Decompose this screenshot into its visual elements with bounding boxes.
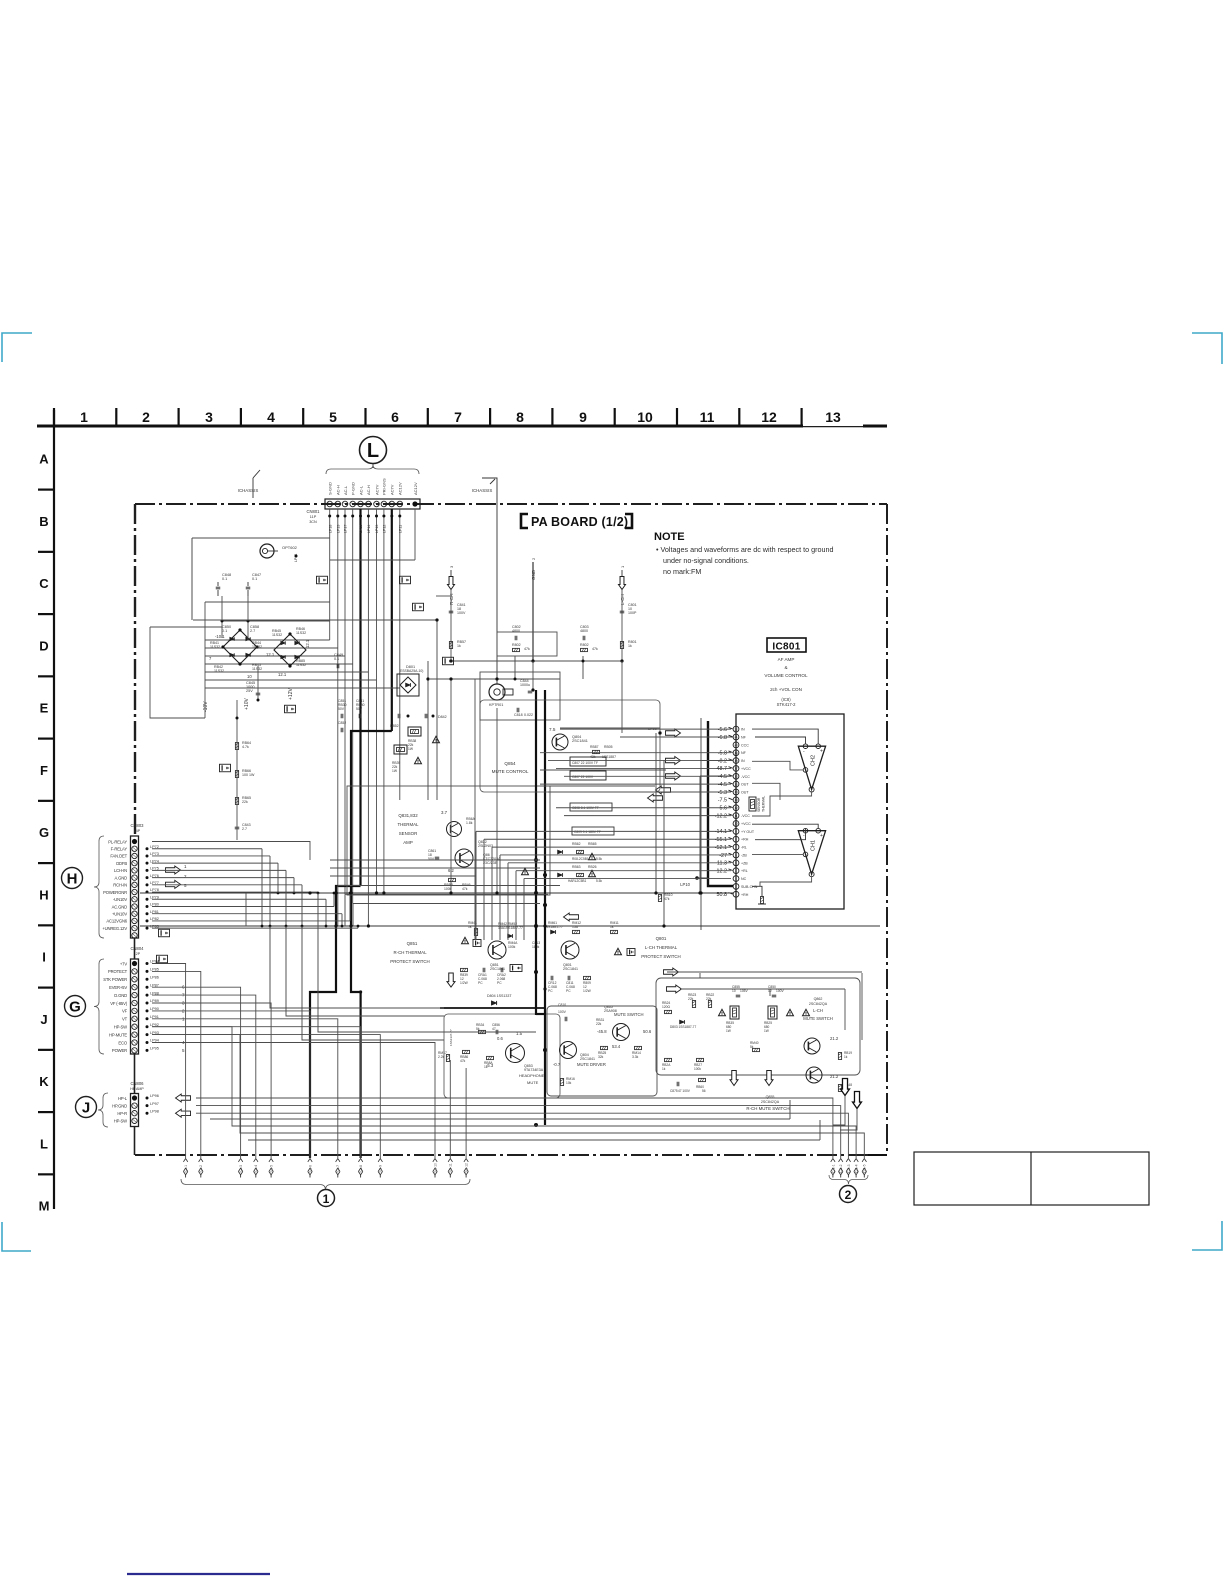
svg-text:12.1: 12.1 xyxy=(305,639,310,648)
svg-text:PL-RELAY: PL-RELAY xyxy=(108,839,127,844)
svg-text:ICHASSIS: ICHASSIS xyxy=(238,488,259,493)
svg-text:2.2k: 2.2k xyxy=(438,1055,445,1059)
brace for G group xyxy=(94,959,104,1054)
svg-text:CH1: CH1 xyxy=(811,840,817,851)
svg-text:L-CH: L-CH xyxy=(620,594,625,605)
svg-text:1k: 1k xyxy=(484,1065,488,1069)
svg-text:PRI-GNS: PRI-GNS xyxy=(382,478,387,495)
svg-text:20: 20 xyxy=(734,743,738,747)
svg-text:CN806: CN806 xyxy=(130,1081,144,1086)
svg-text:PROTECT: PROTECT xyxy=(108,969,128,974)
svg-text:0.1: 0.1 xyxy=(222,629,227,633)
svg-text:50V: 50V xyxy=(356,707,363,711)
grid ruler left line xyxy=(53,410,55,1209)
revision table xyxy=(914,1152,1149,1205)
svg-text:0.1: 0.1 xyxy=(334,657,339,661)
svg-text:100k: 100k xyxy=(444,887,452,891)
connector CN803 pins xyxy=(132,839,137,844)
bold down arrow 2 xyxy=(853,1092,862,1109)
svg-text:11S32: 11S32 xyxy=(210,645,220,649)
resistor RB65 xyxy=(235,798,238,805)
svg-text:RCH-IN: RCH-IN xyxy=(113,883,127,888)
svg-text:22k: 22k xyxy=(706,997,712,1001)
svg-text:47k: 47k xyxy=(524,647,530,651)
svg-text:RB65: RB65 xyxy=(588,842,597,846)
diode RM61 row xyxy=(551,930,556,934)
svg-text:-10.1: -10.1 xyxy=(215,634,225,639)
bold bus route B xyxy=(351,731,392,1158)
svg-text:LP11: LP11 xyxy=(398,525,402,533)
board border top dash-dot xyxy=(135,503,887,505)
svg-text:0.1: 0.1 xyxy=(252,577,257,581)
node 1 (circled) xyxy=(318,1190,335,1207)
boxed cap C808 xyxy=(570,803,612,811)
svg-text:HP-SW: HP-SW xyxy=(114,1119,127,1124)
svg-text:C: C xyxy=(39,576,49,591)
transistor Q801 xyxy=(561,941,579,959)
svg-text:AC.GND: AC.GND xyxy=(112,904,128,909)
svg-text:5.6: 5.6 xyxy=(720,806,728,812)
svg-text:+12V: +12V xyxy=(288,688,294,700)
svg-text:+10V: +10V xyxy=(244,698,250,710)
left drops extended to mute inputs xyxy=(270,926,444,1008)
svg-text:LP98: LP98 xyxy=(150,1109,159,1113)
svg-text:2.7: 2.7 xyxy=(250,629,255,633)
CN801 drop junction dots xyxy=(328,515,331,518)
svg-text:AMP: AMP xyxy=(403,840,413,845)
board border left dash-dot xyxy=(134,504,136,838)
svg-text:L-CH: L-CH xyxy=(813,1008,823,1013)
svg-text:VF: VF xyxy=(122,1009,128,1014)
svg-text:PC: PC xyxy=(548,989,553,993)
resistor RB64 xyxy=(235,743,238,750)
diode cluster RB63 xyxy=(558,873,563,877)
HP fan wires to terminal row 2 xyxy=(196,1098,833,1158)
headphone area frame xyxy=(444,1014,560,1098)
crop mark top-right (cyan) xyxy=(1192,333,1222,364)
terminal row 1 symbols xyxy=(183,1159,187,1162)
svg-text:D: D xyxy=(39,638,48,653)
IC feed risers xyxy=(475,831,477,940)
IC801 designator box xyxy=(767,638,806,652)
svg-text:PC: PC xyxy=(497,981,502,985)
svg-text:11S32: 11S32 xyxy=(252,667,262,671)
svg-text:56: 56 xyxy=(702,1089,706,1093)
svg-text:R-CH MUTE SWITCH: R-CH MUTE SWITCH xyxy=(746,1106,789,1111)
svg-text:11: 11 xyxy=(700,409,715,425)
svg-text:2SC1841: 2SC1841 xyxy=(563,967,578,971)
mute switch block outline xyxy=(656,978,860,1075)
svg-text:-52.1: -52.1 xyxy=(715,845,727,851)
rail AC12VGN6 xyxy=(140,925,880,927)
svg-text:9TA734E3A: 9TA734E3A xyxy=(524,1068,544,1072)
CN803 stub wires xyxy=(152,848,262,850)
svg-text:6: 6 xyxy=(391,409,399,425)
svg-text:100k: 100k xyxy=(694,1067,701,1071)
svg-text:C809 0.1 180V TF: C809 0.1 180V TF xyxy=(574,830,601,834)
boxed cap C809 xyxy=(572,827,614,835)
IC801 sensor thermal label xyxy=(749,797,756,811)
cap C802 / resistor R802 (left) xyxy=(497,632,557,656)
svg-text:D.GND: D.GND xyxy=(114,993,127,998)
svg-text:2: 2 xyxy=(142,409,150,425)
svg-text:3.3k: 3.3k xyxy=(632,1055,639,1059)
svg-text:10k: 10k xyxy=(566,1081,572,1085)
mute driver section box xyxy=(547,1006,657,1096)
misc small rails xyxy=(191,538,193,620)
mute block down arrow 1 xyxy=(730,1071,738,1086)
diode D803 xyxy=(680,1020,685,1024)
svg-text:-4.5: -4.5 xyxy=(718,774,727,780)
photo transistor KPTR01 xyxy=(489,684,505,700)
svg-text:2: 2 xyxy=(845,1188,852,1202)
node H (circled) xyxy=(62,868,83,889)
svg-text:12: 12 xyxy=(761,409,777,425)
svg-text:100k: 100k xyxy=(508,945,516,949)
svg-text:+: + xyxy=(820,833,823,839)
svg-text:+UNREG.12V: +UNREG.12V xyxy=(102,926,127,931)
signal arrow HP-L xyxy=(176,1094,191,1102)
svg-text:18: 18 xyxy=(734,759,738,763)
svg-text:PC: PC xyxy=(478,981,483,985)
bold vertical junctions xyxy=(534,858,538,862)
svg-text:RB63: RB63 xyxy=(572,865,581,869)
svg-text:HEADPHONE: HEADPHONE xyxy=(519,1073,545,1078)
svg-text:-45.8: -45.8 xyxy=(597,1029,607,1034)
svg-text:11S32: 11S32 xyxy=(252,645,262,649)
svg-text:23C/23E: 23C/23E xyxy=(483,861,498,865)
svg-text:PROTECT SWITCH: PROTECT SWITCH xyxy=(390,959,429,964)
mute feed arrow 1 xyxy=(664,968,679,976)
bold center verticals xyxy=(535,690,537,1015)
svg-text:L: L xyxy=(40,1136,48,1151)
svg-text:R08-2C5B1: R08-2C5B1 xyxy=(572,857,589,861)
svg-text:-VCC: -VCC xyxy=(741,775,750,779)
resistor RM41 xyxy=(474,929,477,936)
svg-text:7: 7 xyxy=(454,409,462,425)
svg-text:+Y OUT: +Y OUT xyxy=(741,830,755,834)
svg-text:LP12: LP12 xyxy=(383,525,387,533)
svg-text:+ZB: +ZB xyxy=(741,861,748,865)
bundle turnoff wires to supply area xyxy=(205,639,330,641)
terminal 10-12 drop wires xyxy=(449,1060,451,1158)
svg-text:R802: R802 xyxy=(580,643,589,647)
svg-text:THERMAL: THERMAL xyxy=(762,796,766,812)
svg-text:47: 47 xyxy=(492,1027,496,1031)
svg-text:L-CH THERMAL: L-CH THERMAL xyxy=(645,945,678,950)
supply area frame xyxy=(191,538,193,620)
svg-text:RB62: RB62 xyxy=(572,842,581,846)
mute block down arrow 2 xyxy=(765,1071,773,1086)
svg-text:SENSOR: SENSOR xyxy=(757,797,761,812)
cap C855 xyxy=(736,994,741,996)
grid ruler row ticks xyxy=(38,489,54,491)
connector CN806 body xyxy=(131,1094,139,1127)
svg-text:P-GND: P-GND xyxy=(351,482,356,495)
svg-text:Q862: Q862 xyxy=(814,997,823,1001)
IC801 internal wiring xyxy=(752,729,818,744)
cap C841 xyxy=(449,610,454,612)
svg-text:LP86: LP86 xyxy=(150,976,159,980)
svg-text:IN: IN xyxy=(741,759,745,763)
svg-text:OUT: OUT xyxy=(741,791,749,795)
svg-text:4800: 4800 xyxy=(580,629,588,633)
boxed resistor RB38 xyxy=(408,727,421,736)
svg-text:LP18: LP18 xyxy=(328,525,332,533)
svg-text:C852: C852 xyxy=(338,721,346,725)
svg-text:19: 19 xyxy=(734,751,738,755)
svg-text:AC12V: AC12V xyxy=(413,482,418,495)
protect down arrow xyxy=(447,973,455,987)
svg-text:E: E xyxy=(40,701,49,716)
svg-text:AC-L: AC-L xyxy=(343,485,348,495)
svg-text:C807 22 100V TF: C807 22 100V TF xyxy=(572,761,598,765)
bold bus route A xyxy=(310,886,361,1158)
svg-text:+RH: +RH xyxy=(741,893,749,897)
svg-text:Q831,832: Q831,832 xyxy=(398,813,418,818)
svg-text:11S32: 11S32 xyxy=(272,633,282,637)
node L (circled) xyxy=(360,437,387,464)
svg-text:0.6: 0.6 xyxy=(497,1036,503,1041)
connector CN801 strip xyxy=(325,499,420,509)
resistor RB25/RM14 row xyxy=(601,1046,608,1049)
warn triangles scattered xyxy=(433,736,440,742)
cap row D842 xyxy=(397,714,399,719)
svg-text:LP10: LP10 xyxy=(680,882,690,887)
svg-text:21.2: 21.2 xyxy=(830,1036,839,1041)
svg-text:-6.8: -6.8 xyxy=(718,735,727,741)
feed arrow 2 xyxy=(666,757,681,765)
svg-text:4: 4 xyxy=(267,409,275,425)
terminal 1/2 drop wires xyxy=(185,1000,187,1158)
svg-text:5.5k: 5.5k xyxy=(596,879,602,883)
boxed polarity marks scattered xyxy=(317,576,328,584)
svg-text:-27: -27 xyxy=(719,853,727,859)
svg-text:LP96: LP96 xyxy=(150,1094,159,1098)
svg-text:11.3: 11.3 xyxy=(717,861,727,867)
left arrow protect xyxy=(564,913,579,921)
svg-text:15A1SS1887-77: 15A1SS1887-77 xyxy=(498,926,523,930)
svg-text:10: 10 xyxy=(637,409,653,425)
svg-text:KPTR01: KPTR01 xyxy=(489,703,503,707)
svg-text:HP-L: HP-L xyxy=(118,1096,128,1101)
svg-text:LP17: LP17 xyxy=(344,525,348,533)
diode D801 (in box) xyxy=(397,674,419,696)
svg-text:NF: NF xyxy=(741,751,747,755)
transistor Q851 xyxy=(488,941,506,959)
svg-text:11P: 11P xyxy=(310,515,317,519)
signal arrow HP-R xyxy=(176,1109,191,1117)
svg-text:47k: 47k xyxy=(460,1059,466,1063)
svg-text:1k: 1k xyxy=(844,1055,848,1059)
diode D804 xyxy=(491,1001,496,1005)
svg-text:0.1: 0.1 xyxy=(222,577,227,581)
rectifier bridge D845-D848 xyxy=(274,634,306,666)
svg-text:14: 14 xyxy=(734,790,738,794)
svg-text:16: 16 xyxy=(734,774,738,778)
transistor Q804 mute control xyxy=(552,734,568,750)
svg-text:-55.1: -55.1 xyxy=(715,837,727,843)
svg-text:0.022: 0.022 xyxy=(524,713,533,717)
svg-text:S-GND: S-GND xyxy=(328,482,333,495)
boxed resistor RB35 xyxy=(730,1006,739,1019)
svg-text:2SC1841: 2SC1841 xyxy=(580,1057,595,1061)
svg-text:10: 10 xyxy=(732,989,736,993)
resistor R801 xyxy=(620,642,623,649)
svg-text:12.1: 12.1 xyxy=(266,652,275,657)
connector chain wire xyxy=(134,938,136,959)
right side risers to mute block xyxy=(861,973,863,1040)
CN801 drop wires xyxy=(329,509,331,640)
svg-text:LP97: LP97 xyxy=(150,1102,159,1106)
resistor RM40 xyxy=(753,1048,760,1051)
HP-SW / HP-MUTE step wires to terminal row 2 xyxy=(152,1027,856,1158)
svg-text:LP13: LP13 xyxy=(375,525,379,533)
svg-text:100 1W: 100 1W xyxy=(242,773,255,777)
brace for terminal group 2 xyxy=(829,1175,868,1184)
svg-text:5k: 5k xyxy=(750,1045,754,1049)
svg-text:R-CH: R-CH xyxy=(449,594,454,605)
boxed cap C807 (2) xyxy=(570,771,606,780)
transistor Q831 xyxy=(447,822,462,837)
svg-text:IC801: IC801 xyxy=(772,642,800,653)
LP10 test point xyxy=(695,876,699,880)
svg-text:120Ω: 120Ω xyxy=(662,1005,671,1009)
brace for terminal group 1 xyxy=(181,1179,470,1190)
diode cluster RB62 xyxy=(558,850,563,854)
svg-text:A: A xyxy=(39,452,49,467)
CN803 LP labels and stubs xyxy=(146,847,149,850)
svg-text:under no-signal conditions.: under no-signal conditions. xyxy=(663,556,749,565)
svg-text:ICHASSIS: ICHASSIS xyxy=(472,488,493,493)
svg-text:1: 1 xyxy=(323,1192,330,1206)
svg-text:VT: VT xyxy=(122,1017,128,1022)
transistor Q853 headphone mute xyxy=(506,1044,525,1063)
svg-text:MUTE SWITCH: MUTE SWITCH xyxy=(614,1012,644,1017)
rail POWERGNR xyxy=(140,892,733,894)
svg-text:CN804: CN804 xyxy=(130,946,144,951)
svg-text:MUTE DRIVER: MUTE DRIVER xyxy=(577,1062,606,1067)
svg-text:3CN: 3CN xyxy=(309,520,317,524)
svg-text:22k: 22k xyxy=(596,1022,602,1026)
svg-text:OPT602: OPT602 xyxy=(282,545,298,550)
svg-text:-8.2: -8.2 xyxy=(718,758,727,764)
svg-text:FAN.DET: FAN.DET xyxy=(110,854,127,859)
cap C801 xyxy=(620,610,625,612)
svg-text:15: 15 xyxy=(734,782,738,786)
mid band horizontals xyxy=(330,859,540,861)
svg-text:R-CH THERMAL: R-CH THERMAL xyxy=(393,950,427,955)
supply junctions xyxy=(221,620,224,623)
CN804 fan to terminal row 1 xyxy=(152,987,241,1158)
svg-text:21: 21 xyxy=(734,735,738,739)
svg-text:L: L xyxy=(367,440,379,462)
svg-text:+VCC: +VCC xyxy=(741,822,751,826)
svg-text:IN: IN xyxy=(741,728,745,732)
mid junction dots xyxy=(449,677,452,680)
svg-text:53.4: 53.4 xyxy=(612,1044,621,1049)
connector CN806 pins xyxy=(132,1095,137,1100)
svg-text:CN803: CN803 xyxy=(130,823,144,828)
svg-text:22k: 22k xyxy=(688,997,694,1001)
feed arrow left 2 xyxy=(648,794,663,802)
feed arrow 3 xyxy=(666,772,681,780)
IC pin feed wires xyxy=(560,728,731,730)
extra hp band lines xyxy=(248,1139,820,1141)
svg-text:100V: 100V xyxy=(457,611,466,615)
grid ruler column ticks xyxy=(53,408,55,426)
board border right dash-dot xyxy=(886,504,888,1155)
bold down arrow 1 xyxy=(841,1079,850,1096)
svg-text:12.1: 12.1 xyxy=(278,672,287,677)
svg-text:F: F xyxy=(40,763,48,778)
svg-text:2SC1841: 2SC1841 xyxy=(572,739,588,743)
resistor RB34 xyxy=(479,1030,486,1033)
title PA BOARD (1/2) xyxy=(521,514,528,528)
svg-text:B: B xyxy=(39,514,48,529)
svg-text:50V: 50V xyxy=(338,707,345,711)
svg-text:48.7: 48.7 xyxy=(717,766,728,772)
cap C861 xyxy=(435,856,440,858)
brace under node L xyxy=(326,465,419,474)
svg-text:11S32: 11S32 xyxy=(214,669,224,673)
connector CN803 body xyxy=(131,836,139,938)
svg-text:HARL2C5B1: HARL2C5B1 xyxy=(568,879,586,883)
svg-text:PC: PC xyxy=(566,989,571,993)
svg-text:HP.GND: HP.GND xyxy=(112,1103,127,1108)
svg-text:1/2W: 1/2W xyxy=(583,989,592,993)
svg-text:-0.7: -0.7 xyxy=(553,1062,561,1067)
svg-text:-UN10V: -UN10V xyxy=(113,897,127,902)
protect mid warn xyxy=(615,948,622,954)
svg-text:K: K xyxy=(39,1074,49,1089)
resistor RM17 xyxy=(446,1055,449,1062)
svg-text:THERMAL: THERMAL xyxy=(398,822,420,827)
svg-text:R802: R802 xyxy=(512,643,521,647)
mute block output drops xyxy=(833,1096,845,1125)
svg-text:47k: 47k xyxy=(664,897,670,901)
svg-text:MUTE SWITCH: MUTE SWITCH xyxy=(803,1016,833,1021)
svg-text:5: 5 xyxy=(329,409,337,425)
board border bottom dash-dot xyxy=(135,1154,868,1156)
svg-text:105V: 105V xyxy=(740,989,749,993)
svg-text:I: I xyxy=(42,950,46,965)
svg-text:3: 3 xyxy=(205,409,213,425)
svg-text:VOLUME CONTROL: VOLUME CONTROL xyxy=(764,673,808,678)
note-area vertical wires xyxy=(655,733,657,893)
svg-text:STK POWER: STK POWER xyxy=(103,977,127,982)
resistor RB66b xyxy=(449,878,456,881)
svg-text:CH2: CH2 xyxy=(811,755,817,766)
IC801 internal supply bus (bold) xyxy=(708,721,733,886)
svg-text:C818: C818 xyxy=(514,713,523,717)
svg-text:2SL2N03: 2SL2N03 xyxy=(478,844,493,848)
svg-text:-VCC: -VCC xyxy=(741,814,750,818)
cap C850b xyxy=(772,994,777,996)
svg-text:AC12VGN6: AC12VGN6 xyxy=(106,919,127,924)
svg-text:RB05: RB05 xyxy=(604,745,613,749)
brace for H group xyxy=(94,836,104,938)
node G (circled) xyxy=(65,996,86,1017)
node L stem xyxy=(372,464,374,469)
svg-text:100P: 100P xyxy=(628,611,637,615)
svg-text:+: + xyxy=(820,749,823,755)
mid staircase risers xyxy=(337,886,339,927)
svg-text:ESSBA25A-10): ESSBA25A-10) xyxy=(400,669,423,673)
svg-text:1: 1 xyxy=(80,409,88,425)
crop mark top-left (cyan) xyxy=(2,333,32,362)
svg-text:47 100V: 47 100V xyxy=(678,1089,691,1093)
